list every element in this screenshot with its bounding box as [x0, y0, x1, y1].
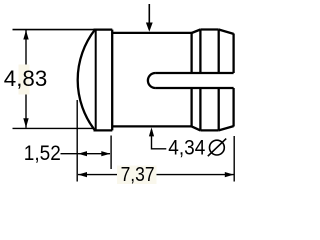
slot rounded end: [148, 73, 156, 88]
arrowhead leader 4,34 up: [149, 127, 154, 136]
dome head arc: [78, 30, 95, 131]
extension line top (4,83): [13, 29, 95, 31]
arrowhead 4,83 up: [23, 30, 28, 39]
diameter symbol: [208, 139, 226, 157]
body top line: [112, 32, 192, 34]
svg-text:4,83: 4,83: [4, 66, 48, 91]
svg-text:4,34: 4,34: [168, 135, 205, 159]
dimension line 1,52: [61, 153, 111, 155]
extension line bottom (4,83): [13, 127, 95, 129]
svg-text:1,52: 1,52: [24, 141, 61, 165]
leader stem 4,34: [152, 130, 167, 149]
top direction arrow stem: [148, 4, 150, 24]
dimension line 7,37: [78, 174, 234, 176]
extension line right (1,52): [110, 136, 112, 170]
barb bottom flat: [200, 129, 218, 131]
barb crest vertical 2 lower: [218, 88, 220, 130]
arrowhead 1,52 right: [101, 151, 110, 156]
barb bottom chamfer: [192, 126, 201, 130]
barb top rear slope: [219, 30, 234, 34]
head/body junction vertical: [111, 30, 113, 131]
barb right edge upper: [232, 34, 234, 74]
arrowhead 7,37 left: [78, 172, 87, 177]
barb crest vertical 2 upper: [218, 30, 220, 74]
barb junction vertical upper: [190, 33, 192, 73]
slot top line: [155, 72, 233, 74]
barb crest vertical 1 lower: [199, 88, 201, 130]
barb top flat: [200, 28, 218, 30]
body bottom line: [112, 125, 192, 127]
extension line left (1,52 / 7,37): [76, 100, 78, 182]
barb crest vertical 1 upper: [199, 30, 201, 74]
extension line right (7,37): [233, 136, 235, 182]
arrowhead 1,52 left: [78, 151, 87, 156]
arrowhead 7,37 right: [225, 172, 234, 177]
head tangency vertical line: [95, 30, 97, 131]
head bottom line: [94, 129, 113, 131]
arrowhead top direction arrow down: [146, 23, 153, 32]
barb right edge lower: [232, 88, 234, 127]
barb bottom rear slope: [219, 126, 234, 130]
barb junction vertical lower: [190, 88, 192, 126]
halo behind 7,37: [117, 166, 157, 185]
barb top chamfer: [192, 30, 201, 34]
svg-text:7,37: 7,37: [121, 163, 155, 186]
halo behind 4,83: [3, 66, 48, 93]
slot bottom line: [155, 87, 233, 89]
head top line: [94, 28, 113, 30]
arrowhead 4,83 down: [23, 118, 28, 127]
dimension line 4,83: [25, 30, 27, 128]
